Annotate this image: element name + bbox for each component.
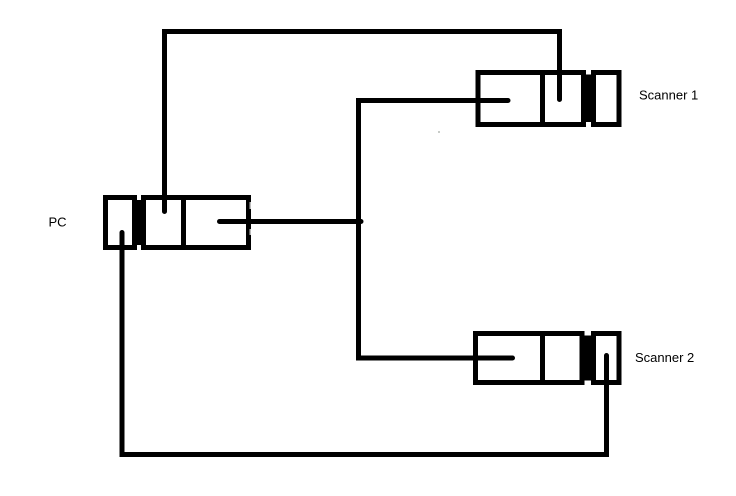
PC small connector box <box>106 198 135 248</box>
Scanner 1 main box <box>478 73 584 125</box>
Scanner 1 main box divider <box>540 70 545 126</box>
svg-text:Scanner 1: Scanner 1 <box>639 88 698 103</box>
wire: PC right stub to junction <box>220 219 362 224</box>
Scanner 2 small connector box <box>594 334 620 383</box>
wire: top loop PC to Scanner 1 <box>165 32 560 212</box>
PC main box <box>144 198 249 248</box>
Scanner 2 main box divider <box>540 331 545 385</box>
Scanner 1 connector bar <box>584 75 592 123</box>
stray dot artifact <box>438 131 440 133</box>
Scanner 1 small connector box <box>594 73 620 125</box>
faint smudge marks right of PC box <box>250 202 252 209</box>
wire: bottom loop PC to Scanner 2 <box>122 233 607 455</box>
wire: junction vertical with branches to Scanner 1 and Scanner 2 <box>359 101 513 359</box>
PC main box divider <box>181 195 186 250</box>
Scanner 2 connector bar <box>583 336 591 381</box>
Scanner 2 main box <box>476 334 583 383</box>
svg-text:PC: PC <box>49 215 67 230</box>
svg-text:Scanner 2: Scanner 2 <box>635 350 694 365</box>
PC connector bar <box>132 200 146 245</box>
